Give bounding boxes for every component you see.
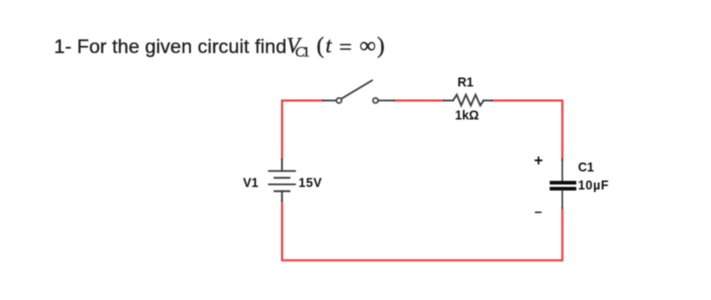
switch S1 left contact circle <box>336 98 341 103</box>
capacitor C1 bottom stub <box>561 191 563 209</box>
svg-text:1- For the given circuit find: 1- For the given circuit find <box>54 36 287 58</box>
resistor R1 right lead <box>484 100 493 102</box>
svg-text:∞: ∞ <box>360 33 377 58</box>
svg-text:t: t <box>326 33 333 58</box>
resistor R1 left lead <box>444 100 453 102</box>
battery V1 short plate 2 <box>275 190 290 192</box>
wire: red segment between switch and resistor R1 <box>394 100 444 102</box>
capacitor C1 bottom plate <box>552 187 575 191</box>
wire: bottom loop red (left vertical below battery, bottom wire, right vertical below capacitor) <box>282 201 562 261</box>
wire: top-left red segment with left vertical down to battery <box>282 101 323 161</box>
svg-text:1: 1 <box>303 45 311 61</box>
capacitor C1 top plate <box>552 181 575 185</box>
switch S1 right contact circle <box>373 98 378 103</box>
battery V1 long plate 1 <box>269 170 295 172</box>
svg-text:): ) <box>377 33 385 58</box>
switch S1 left lead <box>323 100 336 102</box>
svg-text:C1: C1 <box>578 161 594 175</box>
svg-text:15V: 15V <box>299 176 323 190</box>
svg-text:1kΩ: 1kΩ <box>455 109 479 123</box>
battery V1 short plate 1 <box>275 177 290 179</box>
svg-text:(: ( <box>317 33 325 58</box>
svg-text:–: – <box>535 204 543 219</box>
svg-text:10µF: 10µF <box>578 179 609 193</box>
battery V1 long plate 2 <box>269 183 295 185</box>
switch S1 open arm <box>342 81 373 99</box>
battery V1 top stub <box>281 159 283 171</box>
capacitor C1 top stub <box>561 159 563 181</box>
switch S1 right lead <box>378 100 394 102</box>
wire: red segment from R1 to top-right corner and down to capacitor <box>492 101 562 161</box>
resistor R1 zigzag body <box>453 95 484 106</box>
svg-text:=: = <box>339 34 352 59</box>
battery V1 bottom stub <box>281 191 283 201</box>
svg-text:R1: R1 <box>458 76 474 90</box>
svg-text:V1: V1 <box>243 176 258 190</box>
svg-text:+: + <box>534 153 543 170</box>
